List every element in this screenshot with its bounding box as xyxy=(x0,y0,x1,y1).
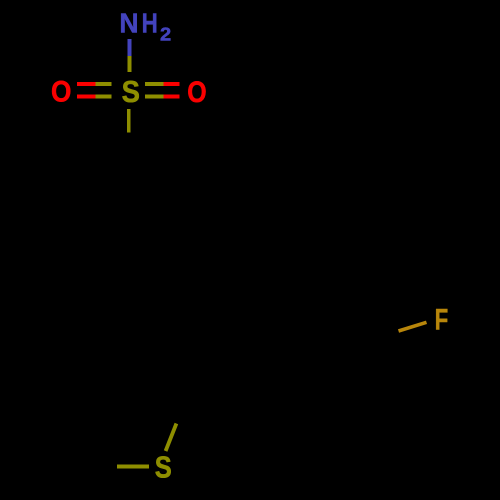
svg-text:N: N xyxy=(119,8,138,39)
svg-text:F: F xyxy=(435,304,449,337)
svg-text:S: S xyxy=(122,75,140,109)
svg-text:2: 2 xyxy=(160,25,171,45)
svg-text:O: O xyxy=(51,76,71,109)
svg-text:O: O xyxy=(187,76,206,109)
svg-text:S: S xyxy=(155,451,172,485)
svg-text:H: H xyxy=(142,8,158,39)
